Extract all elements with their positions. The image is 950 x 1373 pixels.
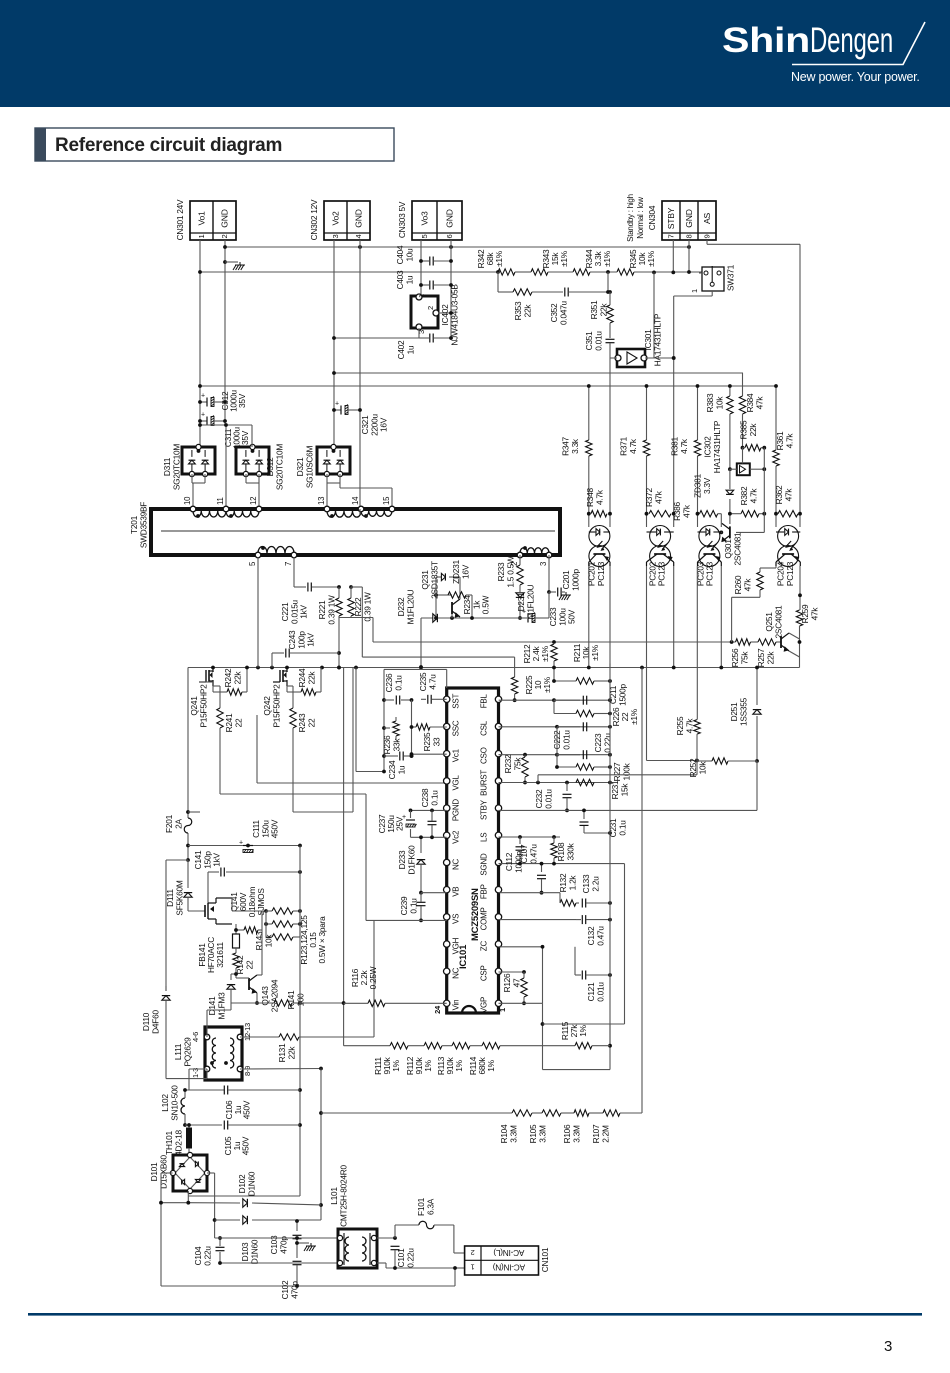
label D311	[162, 444, 181, 491]
wire SW371 to chain	[699, 272, 702, 274]
wire FBP row	[499, 892, 561, 894]
wire GND pin8 down	[687, 240, 691, 274]
svg-text:AC-IN(N): AC-IN(N)	[492, 1262, 525, 1272]
svg-text:4D2-18: 4D2-18	[173, 1130, 183, 1156]
capacitor C237	[402, 810, 417, 837]
svg-text:0.5W × 3para: 0.5W × 3para	[317, 916, 327, 964]
resistor R371	[643, 440, 649, 456]
resistor R382	[728, 511, 766, 517]
svg-text:±1%: ±1%	[590, 644, 600, 661]
wire sgnd drop	[543, 864, 625, 1024]
footer rule	[28, 1313, 922, 1316]
svg-text:1: 1	[498, 1008, 507, 1012]
label C235	[418, 672, 437, 691]
svg-text:P15F50HP2: P15F50HP2	[198, 684, 208, 728]
wire trio verts	[266, 911, 300, 937]
svg-text:SGND: SGND	[480, 853, 489, 876]
svg-text:50V: 50V	[567, 609, 577, 624]
svg-text:22: 22	[244, 960, 254, 969]
capacitor C221	[294, 583, 339, 592]
resistor R225	[511, 668, 517, 703]
opto PC201	[589, 526, 610, 567]
svg-text:22k: 22k	[748, 423, 758, 437]
label R106	[562, 1124, 581, 1143]
logo tagline	[791, 70, 920, 84]
wire pin11 up	[224, 423, 228, 509]
connector CN304	[662, 201, 716, 240]
bridge D101	[170, 1152, 209, 1193]
wire R351 node	[606, 272, 610, 294]
svg-text:14: 14	[351, 496, 360, 505]
resistor R131	[279, 921, 374, 1041]
svg-text:0.1u: 0.1u	[393, 675, 403, 691]
svg-text:22k: 22k	[522, 304, 532, 318]
label R123-125	[299, 915, 327, 965]
svg-text:47k: 47k	[742, 578, 752, 592]
svg-text:321611: 321611	[215, 942, 225, 968]
svg-text:4.7k: 4.7k	[784, 433, 794, 449]
label C223	[593, 733, 612, 753]
label R241	[224, 713, 243, 732]
winding 10-11	[190, 506, 229, 518]
svg-text:35V: 35V	[240, 430, 250, 445]
svg-text:D1N60: D1N60	[246, 1171, 256, 1196]
capacitor C234	[384, 752, 413, 761]
wire row 1003 to R116	[300, 1001, 346, 1005]
svg-text:22: 22	[306, 718, 316, 727]
node fbl	[552, 698, 612, 702]
diode D102	[243, 1199, 321, 1207]
svg-text:1%: 1%	[578, 1024, 588, 1036]
wire Vo1 vertical	[199, 240, 201, 445]
label ZD381	[693, 474, 712, 498]
svg-text:±1%: ±1%	[646, 250, 656, 267]
svg-text:25V: 25V	[395, 816, 405, 831]
wire r351-c351	[609, 323, 611, 338]
label R257	[756, 648, 775, 667]
resistor R232	[522, 755, 528, 785]
ShinDengen logo	[722, 21, 925, 65]
label R115	[560, 1021, 588, 1040]
label C404	[395, 245, 414, 264]
svg-text:+: +	[335, 401, 339, 408]
wire left AC rail	[161, 1285, 455, 1287]
svg-text:1: 1	[471, 1262, 475, 1271]
svg-text:Shin: Shin	[722, 21, 810, 60]
wire GND3 vertical	[450, 240, 452, 340]
svg-text:±1%: ±1%	[559, 250, 569, 267]
svg-text:1: 1	[417, 294, 426, 298]
svg-text:2: 2	[220, 235, 229, 239]
label R112	[405, 1056, 433, 1075]
capacitor C201	[549, 588, 571, 601]
label R108	[556, 842, 575, 861]
label D233	[397, 845, 416, 875]
node v386	[198, 384, 202, 388]
svg-text:Vo3: Vo3	[420, 211, 430, 226]
label C312	[220, 389, 247, 411]
svg-text:VGP: VGP	[480, 997, 489, 1013]
label C243	[287, 630, 316, 649]
svg-text:450V: 450V	[242, 1100, 252, 1119]
label R234	[462, 595, 491, 614]
svg-text:4.7k: 4.7k	[684, 718, 694, 734]
svg-text:D1N60: D1N60	[249, 1239, 259, 1264]
svg-text:Reference circuit diagram: Reference circuit diagram	[55, 135, 282, 156]
svg-text:1u: 1u	[404, 275, 414, 284]
resistor R113	[452, 1043, 482, 1049]
wire 24V branch y=272	[200, 271, 498, 273]
wire VS row	[366, 919, 447, 921]
wire LS row	[499, 835, 561, 839]
resistor R114	[482, 1043, 575, 1049]
svg-text:22k: 22k	[232, 671, 242, 685]
wire pc203 right rail	[719, 566, 723, 669]
svg-text:11: 11	[216, 497, 225, 505]
page number	[884, 1338, 892, 1355]
wire ZC row	[499, 947, 543, 1004]
svg-text:SSC: SSC	[452, 720, 461, 736]
resistor R381	[694, 440, 700, 456]
svg-text:D1FK60: D1FK60	[406, 845, 416, 875]
svg-text:0.047u: 0.047u	[558, 300, 568, 325]
wire pc204 right rail	[798, 244, 802, 610]
capacitor C403	[419, 281, 453, 290]
label R104	[499, 1124, 518, 1143]
wire HV x=300	[188, 846, 302, 1197]
wire CSO row	[499, 753, 612, 757]
diode D110	[162, 986, 170, 1079]
svg-text:1kV: 1kV	[306, 633, 316, 647]
capacitor C101	[377, 1236, 455, 1270]
label R227	[612, 762, 631, 781]
svg-text:SWD3539BF: SWD3539BF	[138, 502, 148, 548]
svg-text:6.3A: 6.3A	[425, 1198, 435, 1215]
wire gnd bus y=247	[225, 246, 689, 248]
svg-text:CMT25H-8024R0: CMT25H-8024R0	[338, 1164, 348, 1226]
svg-text:M1FM3: M1FM3	[216, 992, 226, 1020]
svg-text:5: 5	[420, 235, 429, 239]
capacitor C321	[332, 401, 362, 415]
label R232	[503, 754, 522, 773]
svg-text:33: 33	[431, 737, 441, 746]
winding 11-12	[226, 506, 262, 518]
resistor R342	[496, 269, 515, 275]
capacitor C103	[293, 1219, 302, 1243]
svg-text:7: 7	[284, 562, 293, 566]
winding 13-14	[324, 506, 364, 518]
resistor R260	[732, 568, 776, 642]
label R362	[774, 485, 793, 504]
inductor L101	[337, 1229, 377, 1268]
label R244	[297, 668, 316, 687]
svg-text:8: 8	[685, 235, 694, 239]
wire STBY pin7 down	[671, 240, 675, 274]
svg-text:NC: NC	[452, 859, 461, 871]
resistor R124	[264, 921, 302, 927]
svg-text:15: 15	[382, 496, 391, 505]
svg-text:4-6: 4-6	[191, 1032, 200, 1042]
svg-text:SG10SC6M: SG10SC6M	[304, 446, 314, 489]
capacitor C231	[580, 809, 612, 835]
diode D321	[317, 444, 350, 476]
svg-text:0.1u: 0.1u	[429, 790, 439, 806]
capacitor C236	[384, 696, 413, 705]
resistor R348	[591, 511, 607, 517]
capacitor C102	[293, 1241, 302, 1288]
svg-text:0.1u: 0.1u	[408, 898, 418, 914]
resistor R226	[554, 700, 612, 717]
label R353	[513, 301, 532, 320]
svg-text:CN304: CN304	[647, 205, 657, 230]
label R236	[382, 735, 401, 754]
wire feed y=794	[220, 794, 366, 921]
svg-text:GND: GND	[684, 209, 694, 227]
resistor R386	[700, 511, 724, 535]
wire L111 bl to C106	[185, 1069, 224, 1090]
wire Vo2 vertical	[333, 240, 335, 445]
pin labels 5 7 2 3	[248, 561, 548, 566]
wire main bus y=667.5	[188, 639, 800, 668]
svg-text:10k: 10k	[714, 396, 724, 410]
svg-text:±1%: ±1%	[629, 708, 639, 725]
svg-text:ZC: ZC	[480, 941, 489, 952]
label R347	[561, 436, 580, 455]
connector CN301	[190, 201, 236, 240]
label R235	[422, 732, 441, 751]
svg-text:47: 47	[511, 978, 521, 987]
svg-text:1: 1	[690, 289, 699, 293]
svg-text:3: 3	[884, 1338, 892, 1355]
transistor Q251	[781, 633, 800, 657]
svg-text:2.2u: 2.2u	[590, 876, 600, 892]
winding 14-15	[361, 506, 395, 518]
resistor R353	[513, 289, 532, 295]
svg-text:GND: GND	[354, 209, 364, 227]
label D102	[237, 1171, 256, 1196]
wire snubber bottom	[337, 618, 781, 670]
resistor R383	[727, 384, 733, 471]
op-amp IC301	[615, 349, 647, 367]
transistor Q141 SJMOS	[188, 898, 232, 924]
svg-text:2: 2	[471, 1248, 475, 1257]
wire aux y=618	[421, 617, 520, 619]
capacitor C223	[557, 727, 587, 767]
svg-text:75k: 75k	[739, 651, 749, 665]
wire GND2 vertical	[359, 240, 361, 514]
svg-text:MCZ5209SN: MCZ5209SN	[470, 888, 481, 941]
wire rail y=845	[188, 844, 302, 848]
svg-text:LS: LS	[480, 833, 489, 842]
svg-text:CN301 24V: CN301 24V	[175, 199, 185, 240]
wire IC402 pin2	[438, 311, 453, 315]
transformer L111	[204, 1027, 243, 1080]
svg-text:P15F50HP2: P15F50HP2	[271, 684, 281, 728]
label R372	[644, 488, 663, 507]
label C237	[377, 814, 405, 833]
svg-text:3.3M: 3.3M	[537, 1125, 547, 1143]
transistor Q231	[434, 593, 460, 620]
resistor R211	[552, 678, 612, 684]
svg-text:13: 13	[317, 497, 326, 505]
svg-text:GND: GND	[445, 209, 455, 227]
resistor R233	[517, 565, 523, 585]
svg-text:PC123: PC123	[596, 561, 606, 586]
svg-text:1u: 1u	[396, 765, 406, 774]
label R113	[436, 1056, 464, 1075]
resistor R116	[344, 1000, 447, 1006]
label CN304	[647, 205, 657, 230]
wire pin2 down	[519, 555, 521, 565]
wire snubber top right	[351, 587, 515, 668]
resistor R123	[266, 908, 302, 914]
capacitor C351	[606, 339, 615, 352]
wire fuse to CN101	[434, 1225, 465, 1253]
resistor R141	[274, 1000, 302, 1006]
wire FBL row	[499, 699, 610, 701]
label C112	[504, 850, 523, 872]
label F201	[164, 814, 183, 833]
wire COMP row	[499, 919, 577, 921]
svg-text:M1FL20U: M1FL20U	[405, 589, 415, 624]
label PC204	[776, 561, 795, 586]
label Q231	[420, 561, 439, 599]
wire Vc1 row	[410, 752, 447, 756]
node gnd bus junctions	[223, 245, 691, 264]
svg-text:4.7k: 4.7k	[748, 488, 758, 504]
svg-text:8-9: 8-9	[243, 1066, 252, 1076]
capacitor C107	[516, 837, 525, 864]
svg-text:IC101: IC101	[458, 944, 469, 969]
wire c234 to bus	[356, 668, 386, 774]
label R226	[611, 707, 639, 726]
svg-text:1000p: 1000p	[570, 568, 580, 590]
label Q301	[723, 532, 742, 565]
svg-text:15k: 15k	[619, 783, 629, 797]
svg-text:450V: 450V	[270, 819, 280, 838]
wire bridge left leg	[159, 1173, 173, 1286]
label TH101	[164, 1130, 183, 1156]
capacitor C112	[537, 862, 546, 895]
wire pc203 left rail	[696, 384, 700, 527]
svg-text:PGND: PGND	[452, 799, 461, 822]
label R345	[628, 249, 656, 268]
wire D312 bottoms	[246, 474, 259, 509]
svg-text:VS: VS	[452, 914, 461, 924]
wire rail y=812	[188, 811, 200, 813]
svg-text:9: 9	[703, 235, 712, 239]
svg-text:Vin: Vin	[452, 1000, 461, 1011]
svg-text:24: 24	[433, 1005, 442, 1014]
svg-text:D4F60: D4F60	[150, 1010, 160, 1034]
label R242	[223, 668, 242, 687]
label R344	[584, 249, 612, 268]
op-amp IC302	[730, 448, 766, 475]
svg-text:FBL: FBL	[480, 694, 489, 709]
resistor R241	[213, 686, 223, 794]
resistor R221	[336, 587, 342, 618]
capacitor C402	[419, 334, 453, 343]
transistor Q143 2SA2094	[236, 930, 262, 1005]
label R259	[800, 604, 819, 623]
wire AS pin9 down	[707, 240, 800, 244]
svg-text:Standby : high: Standby : high	[626, 194, 635, 242]
label F101	[416, 1197, 435, 1216]
wire jog left	[166, 860, 188, 991]
svg-text:Normal : low: Normal : low	[636, 197, 645, 239]
resistor R222	[348, 587, 354, 618]
svg-text:SF5K60M: SF5K60M	[174, 880, 184, 915]
wire left rail x=188	[186, 668, 190, 862]
capacitor C133	[582, 899, 612, 908]
wire SW371 bottom	[674, 291, 713, 296]
svg-text:1500p: 1500p	[617, 683, 627, 705]
opto PC204	[776, 526, 800, 567]
label C133	[581, 874, 600, 893]
capacitor C239	[417, 893, 426, 923]
label CN302	[309, 199, 319, 240]
label R225	[524, 675, 552, 694]
label C106	[224, 1100, 252, 1119]
svg-text:4.7k: 4.7k	[679, 438, 689, 454]
resistor R132	[560, 893, 579, 907]
svg-text:3.3k: 3.3k	[570, 438, 580, 454]
svg-text:PC123: PC123	[705, 561, 715, 586]
label R126	[502, 973, 521, 992]
svg-text:AC-IN(L): AC-IN(L)	[493, 1248, 524, 1258]
resistor R244	[287, 668, 321, 696]
wire feed y=812	[293, 668, 353, 813]
label R351	[589, 300, 608, 319]
svg-text:3.3V: 3.3V	[702, 477, 712, 494]
label C103	[269, 1235, 288, 1254]
label R221	[317, 595, 336, 625]
wire GND1 vertical	[224, 240, 226, 425]
resistor R107	[603, 1110, 642, 1116]
label C321	[360, 413, 389, 435]
svg-text:47k: 47k	[653, 490, 663, 504]
svg-text:GND: GND	[220, 209, 230, 227]
svg-text:SG20TC10M: SG20TC10M	[274, 444, 284, 491]
svg-text:0.47u: 0.47u	[595, 926, 605, 946]
label D101	[149, 1154, 168, 1188]
label R212	[522, 644, 550, 663]
label CN303	[397, 201, 407, 238]
svg-text:16V: 16V	[460, 564, 470, 579]
resistor R255	[694, 566, 700, 775]
wire ssc	[430, 726, 447, 728]
svg-text:0.1u: 0.1u	[617, 820, 627, 836]
capacitor C312	[198, 393, 227, 407]
label C111	[251, 819, 280, 838]
svg-text:BURST: BURST	[480, 770, 489, 796]
svg-text:PC123: PC123	[785, 561, 795, 586]
wire D312 top	[198, 423, 252, 447]
label R116	[350, 966, 378, 989]
wire 12V branch y=373	[332, 371, 743, 375]
label C239	[399, 896, 418, 915]
op-amp IC101 MCZ5209SN	[433, 688, 507, 1014]
title box	[35, 128, 394, 161]
wire PGND row	[409, 809, 447, 813]
label C211	[608, 683, 627, 705]
svg-text:0.01u: 0.01u	[595, 982, 605, 1002]
wire r353-c352	[532, 291, 563, 293]
label R131	[277, 1043, 296, 1062]
svg-text:47k: 47k	[681, 504, 691, 518]
wire L111 top-left	[207, 1003, 231, 1037]
label D141	[207, 992, 226, 1020]
